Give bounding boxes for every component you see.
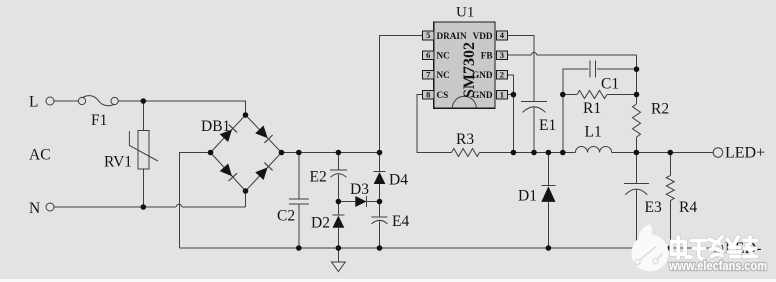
node output/R2/E3 [634, 150, 640, 156]
capacitor E1 bottom plate [523, 107, 546, 113]
node bridge right [279, 150, 285, 156]
svg-text:R3: R3 [456, 131, 474, 148]
svg-text:FB: FB [481, 51, 493, 61]
capacitor E3 leads and top plate [635, 153, 637, 184]
node C1 right [634, 66, 640, 72]
wire R2 to output node [636, 137, 638, 153]
wire diode D3 row [338, 201, 379, 203]
svg-text:8: 8 [426, 89, 430, 99]
wire N to bridge bottom corner [245, 191, 247, 207]
svg-text:D2: D2 [311, 215, 330, 232]
resistor R3 zigzag [452, 149, 480, 157]
node D1 bottom [546, 245, 552, 251]
pin 6 box [423, 51, 434, 60]
wire VDD pin4 to E1 [508, 36, 535, 102]
wire E4 to bottom rail [379, 221, 381, 248]
IC notch [452, 96, 476, 108]
svg-text:SM7302: SM7302 [461, 42, 478, 98]
svg-text:NC: NC [437, 70, 450, 80]
node switch rail / GND [511, 150, 517, 156]
wire GND pin2 down [508, 75, 514, 153]
svg-text:D4: D4 [389, 172, 408, 189]
resistor R2 zigzag [633, 104, 641, 137]
node E1 bottom [531, 150, 537, 156]
node L/RV1 [141, 98, 147, 104]
capacitor E1 top plate [521, 100, 547, 102]
svg-text:R1: R1 [583, 100, 601, 117]
capacitor C1 plates [589, 61, 591, 78]
pin 5 box [423, 31, 434, 40]
svg-text:DRAIN: DRAIN [437, 31, 467, 41]
svg-text:L1: L1 [585, 124, 602, 141]
node bridge bottom [243, 188, 249, 194]
svg-text:D3: D3 [350, 181, 369, 198]
pin 3 box [496, 51, 507, 60]
wire switch node to L1 [513, 152, 575, 154]
capacitor E2 bottom plate [330, 174, 346, 178]
diode D2 cathode bar [333, 214, 345, 216]
wire D4 to E4 [379, 184, 381, 217]
svg-text:N: N [29, 200, 40, 217]
wire N run (hop drawn separately) [54, 206, 176, 208]
svg-text:VDD: VDD [473, 31, 493, 41]
bridge diode top-right [255, 126, 268, 139]
wire diode D1 branch [547, 153, 549, 186]
capacitor E2 lead and top plate [337, 153, 339, 171]
pin 8 box [423, 90, 434, 99]
hop on FB wire [531, 52, 537, 55]
wire rectified rail: bridge right corner to DRAIN/D4 node [282, 152, 380, 154]
svg-text:F1: F1 [91, 112, 107, 129]
node D1 top [546, 150, 552, 156]
bridge diode top-left [220, 129, 232, 142]
bridge diode bars [229, 125, 237, 133]
node D4/DRAIN [377, 150, 383, 156]
capacitor C2 leads and plates [298, 153, 300, 200]
svg-text:R4: R4 [679, 199, 697, 216]
fuse F1 [78, 97, 85, 104]
bottom white strip [0, 279, 776, 282]
wire FB pin3 run (hop drawn separately) [508, 54, 532, 56]
svg-text:www.elecfans.com: www.elecfans.com [668, 258, 767, 273]
svg-text:7: 7 [426, 70, 431, 80]
wire fuse to bridge top [118, 101, 246, 115]
node bridge top [243, 112, 249, 118]
terminal LED+ [713, 148, 723, 158]
node N/RV1 [141, 204, 147, 210]
svg-text:E3: E3 [645, 199, 662, 216]
inductor L1 [575, 146, 611, 152]
wire R3 to switch node [480, 152, 514, 154]
pin 1 box [496, 90, 507, 99]
svg-text:4: 4 [500, 30, 505, 40]
node R4 bottom [668, 245, 674, 251]
ground stem [337, 248, 339, 262]
varistor RV1 diagonal [129, 131, 158, 161]
node E4 bottom [377, 245, 383, 251]
wire GND pin1 [508, 94, 514, 96]
svg-text:DB1: DB1 [201, 118, 230, 135]
diode D1 [541, 186, 555, 202]
node C2 bottom [296, 245, 302, 251]
ground triangle [332, 262, 346, 272]
svg-text:CS: CS [437, 90, 449, 100]
node C2 top [296, 150, 302, 156]
svg-text:5: 5 [426, 30, 430, 40]
pin 7 box [423, 71, 434, 80]
resistor R4 zigzag [666, 176, 674, 201]
varistor RV1 body [138, 131, 149, 170]
svg-text:E4: E4 [392, 213, 409, 230]
node ground [336, 245, 342, 251]
wire bottom return rail [180, 247, 714, 249]
svg-text:3: 3 [500, 50, 504, 60]
watermark url [668, 258, 767, 273]
svg-text:RV1: RV1 [104, 154, 132, 171]
terminal L [46, 97, 54, 105]
wire CS pin8 down to R3 [417, 95, 452, 153]
wire FB node down to R2 [636, 55, 638, 104]
node E2 top [336, 150, 342, 156]
node R1 branch bottom [560, 150, 566, 156]
wire E2 to D2 node [337, 175, 339, 216]
svg-text:E2: E2 [310, 169, 327, 186]
hop on N wire [176, 204, 182, 207]
node GND pins [511, 92, 517, 98]
diode D3 cathode bar [366, 196, 368, 207]
watermark logo leaf [639, 224, 652, 242]
diode D3 [355, 196, 366, 207]
resistor R1 zigzag [577, 91, 607, 99]
wire C1 to FB node [597, 68, 636, 70]
pin 2 box [496, 71, 507, 80]
pin 4 box [496, 31, 507, 40]
bridge DB1 diamond [211, 115, 282, 191]
wire R1 leads [563, 94, 577, 96]
wire bridge left corner to bottom rail [180, 153, 211, 249]
svg-text:1: 1 [500, 89, 504, 99]
bridge diode bottom-left [220, 164, 232, 177]
wire R1 branch down to rail [562, 95, 564, 153]
wire DRAIN pin5 to rectified node [380, 36, 423, 153]
wire L terminal to fuse [54, 100, 79, 102]
svg-text:AC: AC [29, 147, 51, 164]
resistor R4 leads [669, 153, 671, 176]
svg-text:R2: R2 [651, 101, 669, 118]
wire diode D2 to bottom rail [337, 228, 339, 248]
diode D2 [333, 216, 345, 228]
node R4 top [668, 150, 674, 156]
bridge diode bottom-right [255, 167, 267, 180]
svg-text:C1: C1 [601, 76, 619, 93]
wire varistor bottom [142, 169, 144, 207]
terminal LED- [713, 243, 723, 253]
node D2/D3 [336, 199, 342, 205]
svg-text:2: 2 [500, 70, 504, 80]
svg-text:C2: C2 [277, 208, 295, 225]
capacitor E4 bottom plate [372, 220, 388, 224]
node D3/D4/E4 [377, 199, 383, 205]
wire L1 to LED+ [612, 152, 713, 154]
wire varistor top [142, 101, 144, 131]
svg-text:6: 6 [426, 50, 430, 60]
node R1/R2 [634, 92, 640, 98]
capacitor E4 top plate [372, 216, 388, 218]
node bridge left [208, 150, 214, 156]
node E3 bottom [634, 245, 640, 251]
wire D4 top lead [379, 153, 381, 172]
node R1/C1 left [560, 92, 566, 98]
capacitor E3 bottom plate [625, 189, 647, 195]
svg-text:E1: E1 [539, 117, 556, 134]
wire E1 to rail [533, 107, 535, 153]
terminal N [46, 203, 54, 211]
diode D4 [374, 172, 386, 184]
diode D4 cathode bar [374, 171, 386, 173]
IC body [434, 22, 495, 108]
svg-text:NC: NC [437, 51, 450, 61]
watermark chinese brand text [672, 237, 757, 259]
svg-text:U1: U1 [456, 5, 474, 21]
svg-text:LED+: LED+ [725, 145, 765, 162]
svg-text:L: L [29, 94, 38, 111]
wire C1 branch left [563, 69, 589, 94]
watermark logo circle [632, 235, 669, 272]
svg-text:D1: D1 [518, 188, 537, 205]
